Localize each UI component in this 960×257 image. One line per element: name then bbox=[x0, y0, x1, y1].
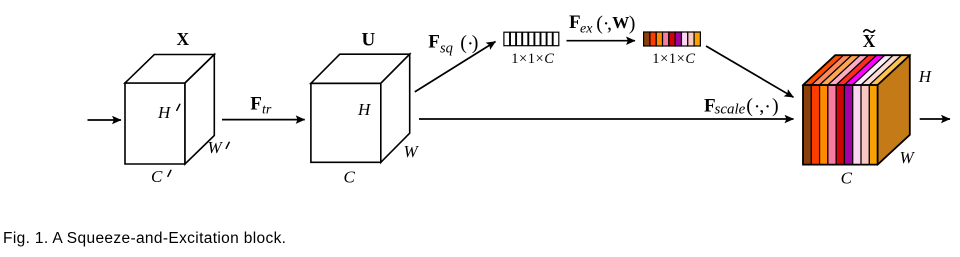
svg-text:X: X bbox=[863, 31, 876, 51]
svg-text:Fig. 1. A Squeeze-and-Excitati: Fig. 1. A Squeeze-and-Excitation block. bbox=[3, 230, 286, 247]
svg-text:,: , bbox=[607, 12, 612, 34]
svg-text:): ) bbox=[629, 12, 636, 34]
svg-text:1×1×C: 1×1×C bbox=[652, 51, 695, 67]
svg-text:X: X bbox=[177, 29, 190, 49]
svg-text:1×1×C: 1×1×C bbox=[511, 51, 554, 67]
svg-text:sq: sq bbox=[440, 40, 453, 56]
svg-text:C: C bbox=[151, 167, 163, 186]
svg-text:C: C bbox=[344, 168, 356, 187]
svg-text:F: F bbox=[250, 94, 262, 115]
svg-text:scale: scale bbox=[715, 101, 746, 117]
svg-text:H: H bbox=[157, 103, 172, 122]
svg-text:H: H bbox=[357, 100, 372, 119]
svg-text:C: C bbox=[841, 169, 853, 188]
svg-text:U: U bbox=[362, 30, 376, 51]
svg-text:F: F bbox=[428, 32, 440, 53]
svg-text:H: H bbox=[918, 67, 933, 86]
svg-text:): ) bbox=[472, 32, 479, 54]
svg-text:ex: ex bbox=[580, 21, 593, 36]
svg-text:W: W bbox=[900, 148, 916, 167]
svg-text:W: W bbox=[208, 138, 224, 157]
svg-text:F: F bbox=[569, 12, 581, 33]
svg-text:W: W bbox=[404, 142, 420, 161]
svg-text:tr: tr bbox=[262, 102, 272, 117]
svg-text:): ) bbox=[772, 95, 779, 117]
svg-text:(: ( bbox=[746, 95, 753, 117]
svg-text:·: · bbox=[764, 96, 771, 118]
svg-text:W: W bbox=[612, 13, 629, 32]
